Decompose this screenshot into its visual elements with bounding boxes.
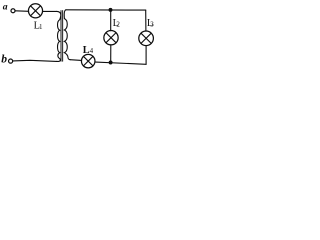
svg-text:a: a bbox=[3, 2, 8, 13]
lamp L1 bbox=[28, 4, 42, 18]
lamp L3 bbox=[139, 31, 154, 46]
wire L1 to transformer primary bbox=[43, 10, 57, 12]
svg-text:3: 3 bbox=[150, 20, 154, 28]
svg-text:1: 1 bbox=[39, 23, 43, 31]
junction dot top bbox=[109, 8, 113, 12]
transformer secondary winding bbox=[64, 10, 70, 60]
transformer T primary winding bbox=[57, 11, 61, 61]
wire a to L1 bbox=[15, 10, 29, 13]
bottom wire from L4 to corner bbox=[96, 62, 147, 64]
svg-text:b: b bbox=[1, 53, 7, 66]
lamp L2 bbox=[104, 31, 118, 45]
wire secondary bottom to L4 bbox=[70, 59, 82, 62]
svg-text:4: 4 bbox=[90, 47, 94, 55]
svg-text:2: 2 bbox=[116, 20, 120, 28]
wire top right corner down to L3 bbox=[145, 10, 147, 31]
terminal b bbox=[9, 59, 13, 63]
wire L3 down to bottom right corner bbox=[145, 46, 147, 65]
wire L2 down to bottom wire bbox=[110, 45, 112, 63]
wire down to L2 bbox=[110, 10, 112, 31]
lamp L4 bbox=[81, 54, 95, 68]
junction dot bottom bbox=[109, 61, 113, 65]
terminal a bbox=[11, 9, 15, 13]
transformer core bbox=[60, 11, 62, 62]
wire b to primary bottom bbox=[13, 60, 57, 61]
wire secondary top to right corner bbox=[66, 9, 146, 11]
